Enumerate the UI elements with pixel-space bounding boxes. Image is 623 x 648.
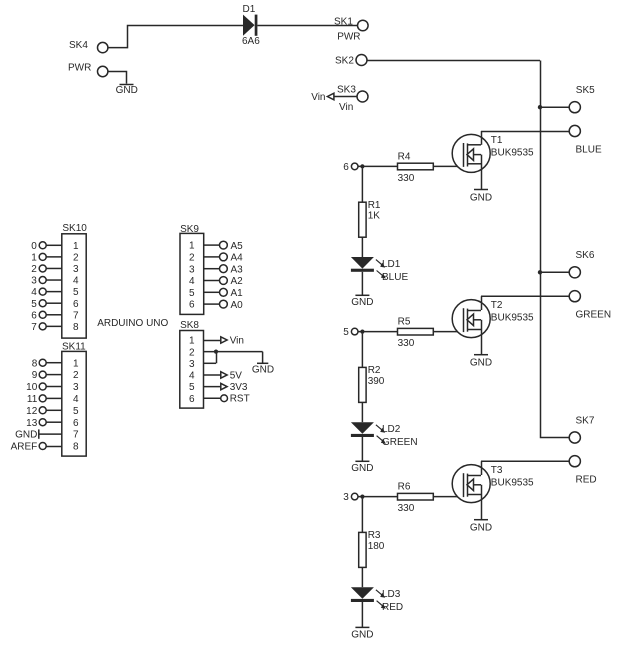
wire SK8-3 to junction xyxy=(204,352,217,364)
wire pin 5 to R5 xyxy=(358,331,398,333)
connector SK8 xyxy=(180,320,204,408)
junction pin 3 xyxy=(360,495,364,499)
svg-text:6: 6 xyxy=(343,162,349,173)
svg-text:R4: R4 xyxy=(398,151,411,162)
junction pin 6 xyxy=(360,164,364,168)
resistor R2 390 xyxy=(359,365,385,402)
node Arduino pin 4 (SK10-5) xyxy=(31,287,62,298)
svg-text:GREEN: GREEN xyxy=(576,310,612,321)
node Arduino pin 11 (SK11-4) xyxy=(27,394,62,405)
resistor R6 330 xyxy=(398,482,434,515)
svg-text:3: 3 xyxy=(343,492,349,503)
svg-text:5: 5 xyxy=(31,299,37,310)
wire junction to R3 xyxy=(361,499,363,533)
wire T3 drain to RED output xyxy=(481,460,569,462)
svg-text:8: 8 xyxy=(73,442,79,453)
wire R3 to LD3 xyxy=(361,567,363,587)
svg-text:GND: GND xyxy=(116,85,138,96)
svg-text:13: 13 xyxy=(26,418,38,429)
junction pin 5 xyxy=(360,330,364,334)
svg-text:BLUE: BLUE xyxy=(382,272,408,283)
node Arduino analog A2 (SK9-4) xyxy=(204,276,243,287)
junction SK8-2/SK8-3 xyxy=(214,350,218,354)
svg-text:5V: 5V xyxy=(230,370,243,381)
svg-text:330: 330 xyxy=(398,338,415,349)
svg-text:D1: D1 xyxy=(243,4,256,15)
svg-text:RED: RED xyxy=(382,602,403,613)
svg-text:LD2: LD2 xyxy=(382,424,401,435)
transistor T2 BUK9535 xyxy=(452,296,534,355)
svg-text:4: 4 xyxy=(31,287,37,298)
svg-text:SK10: SK10 xyxy=(62,223,87,234)
svg-text:GND: GND xyxy=(470,193,492,204)
svg-text:390: 390 xyxy=(368,376,385,387)
svg-text:A3: A3 xyxy=(231,264,244,275)
ground (LD3 cathode) xyxy=(351,627,373,640)
svg-text:GND: GND xyxy=(470,358,492,369)
svg-text:BLUE: BLUE xyxy=(576,144,602,155)
wire junction to R1 xyxy=(361,168,363,202)
connector SK3 Vin xyxy=(311,85,368,114)
svg-text:BUK9535: BUK9535 xyxy=(491,478,534,489)
svg-text:R2: R2 xyxy=(368,365,381,376)
svg-text:330: 330 xyxy=(398,503,415,514)
svg-text:Vin: Vin xyxy=(339,102,353,113)
diode D1 6A6 xyxy=(242,4,260,47)
svg-text:6: 6 xyxy=(73,299,79,310)
wire pin 6 to R4 xyxy=(358,165,398,167)
wire SK4 to D1 anode xyxy=(108,26,244,48)
svg-text:AREF: AREF xyxy=(11,442,38,453)
ground (PWR return) xyxy=(116,85,138,97)
wire LD3 cathode to ground xyxy=(361,602,363,627)
node Arduino analog A3 (SK9-3) xyxy=(204,264,243,275)
svg-text:GND: GND xyxy=(15,430,37,441)
svg-text:3: 3 xyxy=(73,382,79,393)
svg-text:1: 1 xyxy=(31,252,37,263)
LED LD3 RED xyxy=(351,587,403,613)
junction rail-SK6 xyxy=(538,270,542,274)
connector GREEN output xyxy=(569,291,611,321)
svg-text:SK3: SK3 xyxy=(337,85,356,96)
svg-text:4: 4 xyxy=(189,371,195,382)
svg-text:6: 6 xyxy=(189,394,195,405)
svg-text:5: 5 xyxy=(73,406,79,417)
node Arduino pin 12 (SK11-5) xyxy=(26,406,62,417)
svg-text:2: 2 xyxy=(73,370,79,381)
svg-text:2: 2 xyxy=(189,347,195,358)
wire pin 3 to R6 xyxy=(358,496,398,498)
wire R6 to T3 gate xyxy=(433,496,463,498)
node 5V (SK8-4) xyxy=(204,370,243,381)
node Arduino pin 9 (SK11-2) xyxy=(32,370,62,381)
svg-text:Vin: Vin xyxy=(311,92,325,103)
node Arduino pin 6 (SK10-7) xyxy=(31,310,62,321)
svg-text:GND: GND xyxy=(351,629,373,640)
wire LD1 cathode to ground xyxy=(361,272,363,296)
label ARDUINO UNO xyxy=(97,318,168,329)
svg-text:RED: RED xyxy=(576,475,597,486)
ground (LD2 cathode) xyxy=(351,461,373,474)
wire R5 to T2 gate xyxy=(433,331,463,333)
node Arduino pin 7 (SK10-8) xyxy=(31,322,62,333)
svg-text:1: 1 xyxy=(73,241,79,252)
svg-text:2: 2 xyxy=(189,253,195,264)
node Arduino analog A0 (SK9-6) xyxy=(204,300,243,311)
svg-text:A4: A4 xyxy=(231,253,244,264)
node 3V3 (SK8-5) xyxy=(204,382,248,393)
wire PWR to ground xyxy=(108,72,127,84)
svg-text:1: 1 xyxy=(189,241,195,252)
svg-text:11: 11 xyxy=(27,394,38,405)
wire T2 drain to GREEN output xyxy=(481,295,569,297)
svg-text:BUK9535: BUK9535 xyxy=(491,147,534,158)
svg-text:2: 2 xyxy=(73,252,79,263)
wire power rail (SK2 to SK7) xyxy=(541,61,570,438)
svg-text:2: 2 xyxy=(31,264,37,275)
svg-text:SK5: SK5 xyxy=(576,85,595,96)
wire SK2 to power rail xyxy=(367,60,540,62)
node Arduino analog A5 (SK9-1) xyxy=(204,241,243,252)
svg-text:4: 4 xyxy=(189,276,195,287)
wire R1 to LD1 xyxy=(361,237,363,257)
svg-text:6: 6 xyxy=(31,310,37,321)
ground (T3 source) xyxy=(470,520,492,534)
svg-text:7: 7 xyxy=(73,310,79,321)
ground (T2 source) xyxy=(470,355,492,369)
svg-text:3: 3 xyxy=(189,264,195,275)
wire R2 to LD2 xyxy=(361,402,363,422)
svg-text:7: 7 xyxy=(31,322,37,333)
LED LD1 BLUE xyxy=(351,257,409,283)
svg-text:9: 9 xyxy=(32,370,38,381)
transistor T1 BUK9535 xyxy=(452,131,534,190)
svg-text:8: 8 xyxy=(32,358,38,369)
svg-text:3: 3 xyxy=(189,359,195,370)
svg-text:GND: GND xyxy=(351,297,373,308)
svg-text:R3: R3 xyxy=(368,530,381,541)
svg-text:4: 4 xyxy=(73,276,79,287)
svg-text:Vin: Vin xyxy=(230,335,244,346)
wire T1 drain to BLUE output xyxy=(481,131,569,133)
resistor R1 1K xyxy=(359,200,381,237)
svg-text:SK7: SK7 xyxy=(576,415,595,426)
connector SK1 PWR xyxy=(334,17,368,43)
wire rail to SK6 xyxy=(540,271,569,273)
node Arduino analog A1 (SK9-5) xyxy=(204,288,243,299)
svg-text:LD3: LD3 xyxy=(382,589,401,600)
svg-text:R1: R1 xyxy=(368,200,381,211)
connector SK7 xyxy=(569,415,595,443)
node Arduino GND (SK11-7) xyxy=(15,429,62,440)
svg-text:6: 6 xyxy=(189,300,195,311)
svg-text:GND: GND xyxy=(252,364,274,375)
svg-text:GND: GND xyxy=(470,523,492,534)
svg-text:330: 330 xyxy=(398,173,415,184)
node Arduino pin 2 (SK10-3) xyxy=(31,264,62,275)
node Arduino pin 8 (SK11-1) xyxy=(32,358,62,369)
node pin 3 (Arduino output) xyxy=(343,492,358,503)
wire rail to SK5 xyxy=(540,106,569,108)
connector SK2 xyxy=(335,55,367,67)
connector SK9 xyxy=(180,224,204,315)
svg-text:4: 4 xyxy=(73,394,79,405)
LED LD2 GREEN xyxy=(351,422,418,448)
connector SK4 xyxy=(69,40,108,53)
node Arduino pin 3 (SK10-4) xyxy=(31,276,62,287)
ground (LD1 cathode) xyxy=(351,295,373,308)
wire D1 cathode to SK1 xyxy=(257,25,357,27)
node Arduino pin AREF (SK11-8) xyxy=(11,442,62,453)
connector BLUE output xyxy=(569,125,602,155)
connector SK5 xyxy=(569,85,595,113)
wire SK8-2 to ground xyxy=(204,352,263,363)
svg-text:5: 5 xyxy=(189,288,195,299)
svg-text:R6: R6 xyxy=(398,482,411,493)
svg-text:1: 1 xyxy=(189,336,195,347)
svg-text:T3: T3 xyxy=(491,465,503,476)
svg-text:8: 8 xyxy=(73,322,79,333)
svg-text:SK4: SK4 xyxy=(69,40,88,51)
resistor R5 330 xyxy=(398,317,434,350)
node pin 6 (Arduino output) xyxy=(343,162,358,173)
node Arduino pin 0 (SK10-1) xyxy=(31,241,62,252)
wire R4 to T1 gate xyxy=(433,165,463,167)
svg-text:6A6: 6A6 xyxy=(242,36,260,47)
ground (T1 source) xyxy=(470,190,492,204)
svg-text:7: 7 xyxy=(73,430,79,441)
svg-text:A0: A0 xyxy=(231,300,244,311)
svg-text:1: 1 xyxy=(73,358,79,369)
node pin 5 (Arduino output) xyxy=(343,327,358,338)
node Arduino pin 10 (SK11-3) xyxy=(26,382,62,393)
svg-text:12: 12 xyxy=(26,406,38,417)
svg-text:0: 0 xyxy=(31,241,37,252)
svg-text:3: 3 xyxy=(73,264,79,275)
svg-text:5: 5 xyxy=(189,382,195,393)
svg-text:5: 5 xyxy=(73,287,79,298)
wire junction to R2 xyxy=(361,334,363,368)
svg-text:5: 5 xyxy=(343,327,349,338)
node Arduino pin 1 (SK10-2) xyxy=(31,252,62,263)
svg-text:3: 3 xyxy=(31,276,37,287)
connector SK10 xyxy=(62,223,88,338)
node Vin (SK8-1) xyxy=(204,335,244,346)
svg-text:180: 180 xyxy=(368,541,385,552)
svg-text:1K: 1K xyxy=(368,211,381,222)
svg-text:SK8: SK8 xyxy=(180,320,199,331)
svg-text:R5: R5 xyxy=(398,317,411,328)
connector PWR (battery input) xyxy=(68,63,108,77)
connector SK6 xyxy=(569,250,595,278)
transistor T3 BUK9535 xyxy=(452,461,534,520)
node Arduino pin 5 (SK10-6) xyxy=(31,299,62,310)
connector RED output xyxy=(569,456,596,486)
svg-text:A5: A5 xyxy=(231,241,244,252)
resistor R4 330 xyxy=(398,151,434,184)
svg-text:A2: A2 xyxy=(231,276,244,287)
svg-text:6: 6 xyxy=(73,418,79,429)
svg-text:PWR: PWR xyxy=(337,32,360,43)
svg-text:T1: T1 xyxy=(491,135,503,146)
node RST (SK8-6) xyxy=(204,394,250,405)
svg-text:ARDUINO UNO: ARDUINO UNO xyxy=(97,318,168,329)
node Arduino analog A4 (SK9-2) xyxy=(204,253,243,264)
svg-text:T2: T2 xyxy=(491,300,503,311)
svg-text:SK1: SK1 xyxy=(334,17,353,28)
svg-text:GREEN: GREEN xyxy=(382,437,418,448)
wire LD2 cathode to ground xyxy=(361,437,363,461)
ground (SK8 pins 2,3) xyxy=(252,363,274,375)
svg-text:SK11: SK11 xyxy=(62,341,86,352)
svg-text:LD1: LD1 xyxy=(382,259,401,270)
svg-text:SK2: SK2 xyxy=(335,56,354,67)
svg-text:GND: GND xyxy=(351,463,373,474)
svg-text:3V3: 3V3 xyxy=(230,382,248,393)
connector SK11 xyxy=(62,341,86,456)
resistor R3 180 xyxy=(359,530,385,567)
svg-text:SK6: SK6 xyxy=(576,250,595,261)
svg-text:RST: RST xyxy=(230,394,250,405)
svg-text:PWR: PWR xyxy=(68,63,91,74)
svg-text:A1: A1 xyxy=(231,288,244,299)
node Arduino pin 13 (SK11-6) xyxy=(26,418,62,429)
svg-text:10: 10 xyxy=(26,382,38,393)
junction rail-SK5 xyxy=(538,105,542,109)
svg-text:BUK9535: BUK9535 xyxy=(491,313,534,324)
